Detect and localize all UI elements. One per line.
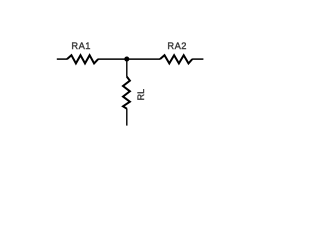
wire <box>126 59 128 77</box>
svg-text:RL: RL <box>136 89 146 101</box>
resistor RA1 <box>67 55 98 63</box>
resistor RL <box>123 77 130 109</box>
wire <box>98 58 127 60</box>
node junction <box>124 57 129 62</box>
svg-text:RA1: RA1 <box>71 41 91 51</box>
wire <box>127 58 160 60</box>
resistor RA2 <box>160 55 192 63</box>
svg-text:RA2: RA2 <box>167 41 187 51</box>
wire <box>192 58 203 60</box>
wire <box>126 109 128 126</box>
wire <box>57 58 67 60</box>
